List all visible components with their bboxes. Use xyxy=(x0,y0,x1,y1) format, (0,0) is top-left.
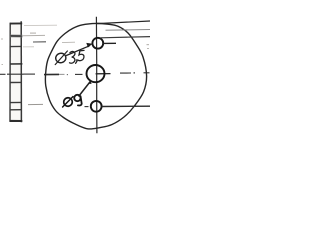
horizontal centerline (dash-dot) xyxy=(0,73,150,107)
leader for top hole dimension xyxy=(66,43,93,56)
label dia 9 xyxy=(63,95,82,107)
top-right horizontal lines xyxy=(101,30,151,44)
disc outline (big circle, hand-drawn) xyxy=(45,23,146,129)
side view hole projection rungs xyxy=(10,36,23,110)
bottom-right horizontal line xyxy=(102,105,151,107)
top hole xyxy=(92,38,103,49)
tangent line from disc top to right edge xyxy=(97,21,150,24)
vertical centerline xyxy=(95,17,98,134)
bottom hole xyxy=(91,101,102,112)
scan speckles xyxy=(1,33,149,66)
leader for center hole dimension xyxy=(79,80,92,96)
center hole xyxy=(87,65,105,82)
faint projection lines between views xyxy=(23,25,75,104)
label dia 3,5 xyxy=(55,50,84,64)
side view plate (edge view rectangle) xyxy=(10,21,23,122)
